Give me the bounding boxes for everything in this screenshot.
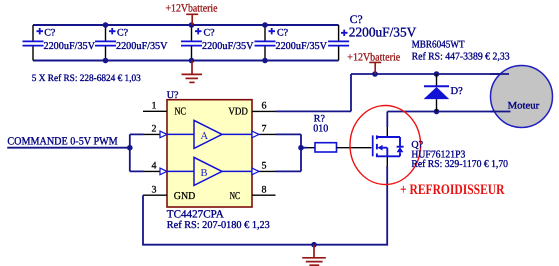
svg-text:5 X Ref RS: 228-6824 € 1,03: 5 X Ref RS: 228-6824 € 1,03 xyxy=(32,73,141,84)
svg-text:2200uF/35V: 2200uF/35V xyxy=(116,41,168,52)
svg-text:Ref RS: 207-0180 € 1,23: Ref RS: 207-0180 € 1,23 xyxy=(167,220,270,231)
svg-text:COMMANDE 0-5V PWM: COMMANDE 0-5V PWM xyxy=(7,136,117,148)
svg-text:5: 5 xyxy=(262,161,267,172)
svg-text:Ref RS: 447-3389 € 2,33: Ref RS: 447-3389 € 2,33 xyxy=(412,51,510,62)
svg-text:Moteur: Moteur xyxy=(508,101,540,112)
svg-text:010: 010 xyxy=(313,124,328,135)
svg-text:4: 4 xyxy=(152,161,157,172)
svg-text:2: 2 xyxy=(152,124,157,135)
svg-text:C?: C? xyxy=(44,28,56,39)
svg-text:2200uF/35V: 2200uF/35V xyxy=(202,41,254,52)
svg-text:C?: C? xyxy=(117,28,129,39)
svg-text:GND: GND xyxy=(174,191,196,202)
svg-text:6: 6 xyxy=(262,101,267,112)
svg-text:TC4427CPA: TC4427CPA xyxy=(167,209,224,221)
svg-text:C?: C? xyxy=(277,28,289,39)
svg-text:3: 3 xyxy=(152,185,157,196)
svg-text:U?: U? xyxy=(167,90,179,101)
svg-text:+ REFROIDISSEUR: + REFROIDISSEUR xyxy=(400,182,505,198)
svg-text:NC: NC xyxy=(230,191,241,202)
svg-text:2200uF/35V: 2200uF/35V xyxy=(349,25,417,40)
svg-text:+12Vbatterie: +12Vbatterie xyxy=(166,2,218,14)
svg-text:2200uF/35V: 2200uF/35V xyxy=(276,41,328,52)
svg-text:VDD: VDD xyxy=(228,107,248,118)
svg-text:C?: C? xyxy=(204,28,216,39)
svg-text:NC: NC xyxy=(175,107,187,118)
svg-text:MBR6045WT: MBR6045WT xyxy=(412,39,466,50)
svg-text:Ref RS: 329-1170 € 1,70: Ref RS: 329-1170 € 1,70 xyxy=(411,159,508,170)
svg-text:2200uF/35V: 2200uF/35V xyxy=(44,41,96,52)
svg-text:1: 1 xyxy=(152,101,157,112)
svg-text:B: B xyxy=(201,168,208,179)
svg-text:7: 7 xyxy=(262,124,267,135)
svg-text:A: A xyxy=(201,131,209,142)
svg-text:D?: D? xyxy=(451,86,464,97)
svg-text:8: 8 xyxy=(262,185,267,196)
